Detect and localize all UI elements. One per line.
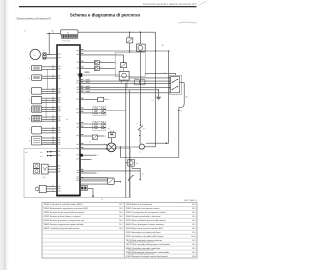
svg-text:16-3: 16-3 <box>192 208 196 210</box>
actuator M2 <box>41 164 48 174</box>
wire pin stub 159 <box>80 158 91 160</box>
sensor B7 body <box>32 126 42 134</box>
svg-text:00: 00 <box>52 101 54 103</box>
svg-text:00: 00 <box>52 120 54 122</box>
ECU bottom thick border <box>56 195 80 197</box>
svg-text:16-5: 16-5 <box>192 216 196 218</box>
wire S3 to H1 <box>139 130 141 144</box>
svg-text:a1: a1 <box>24 31 26 33</box>
diode D1 <box>95 60 100 64</box>
svg-text:00: 00 <box>52 108 54 110</box>
svg-text:c2: c2 <box>120 70 122 72</box>
node 30 <box>168 50 169 51</box>
left page-edge scan shadow <box>0 0 9 270</box>
connector B9 <box>108 132 115 137</box>
connector G1 pins <box>42 53 46 60</box>
svg-text:00: 00 <box>52 127 54 129</box>
svg-text:k1: k1 <box>138 42 140 44</box>
wire to F3 <box>80 135 92 137</box>
wire E1 to S1 <box>145 72 175 74</box>
motor G1 <box>30 49 40 59</box>
wire F1 drop <box>129 32 131 38</box>
wire to D2 <box>80 67 95 69</box>
sensor B1 body <box>32 65 42 70</box>
node SB <box>166 142 168 144</box>
svg-text:16-3: 16-3 <box>119 208 123 210</box>
connector X1 pin comb <box>61 35 63 38</box>
wire blob to K2 <box>82 74 119 76</box>
svg-text:70000 Batteria di avviamento: 70000 Batteria di avviamento <box>126 203 153 206</box>
svg-text:Schema e diagramma di percorso: Schema e diagramma di percorso <box>70 12 141 17</box>
module B3 <box>108 178 115 184</box>
sensor B6 body <box>32 116 42 122</box>
wire D2 out <box>99 67 115 69</box>
pump M3 <box>39 185 46 192</box>
svg-text:00: 00 <box>102 199 104 201</box>
wire V-right <box>128 90 130 198</box>
svg-text:2: 2 <box>29 77 30 79</box>
K2 pin drops <box>120 80 122 83</box>
svg-text:16-10: 16-10 <box>191 236 196 238</box>
wires B3 to U1 <box>42 88 57 90</box>
svg-text:16-4: 16-4 <box>119 212 123 214</box>
wire bus 30 <box>80 50 169 52</box>
wire SB right <box>180 82 185 84</box>
svg-text:c5: c5 <box>137 123 139 125</box>
wire long mid <box>80 170 140 172</box>
relay K2 <box>119 71 129 80</box>
switch S3 <box>138 126 143 131</box>
svg-text:00: 00 <box>52 142 54 144</box>
wire to R1 <box>80 99 98 101</box>
page background <box>0 0 207 270</box>
wire W1 battery feed <box>78 31 156 33</box>
svg-text:b6: b6 <box>136 163 138 165</box>
svg-text:a01: a01 <box>40 156 43 158</box>
svg-text:m1: m1 <box>151 100 153 102</box>
svg-text:30: 30 <box>162 45 164 47</box>
svg-text:h1: h1 <box>139 152 141 154</box>
svg-text:c2: c2 <box>141 78 143 80</box>
wires M3 to U1 <box>46 186 57 188</box>
wire to D1 <box>80 62 95 64</box>
svg-text:00: 00 <box>52 137 54 139</box>
wire bus b5 <box>80 92 170 94</box>
svg-text:00: 00 <box>52 106 54 108</box>
svg-text:70400 Scatola portafusibili e: 70400 Scatola portafusibili e teleruttor… <box>126 215 161 218</box>
wire bus b4 <box>80 89 159 91</box>
svg-text:5: 5 <box>29 109 30 111</box>
svg-text:s1: s1 <box>164 73 166 75</box>
svg-text:61121 Spia candelette di preri: 61121 Spia candelette di preriscaldo mot… <box>126 219 167 222</box>
svg-text:16-6: 16-6 <box>192 220 196 222</box>
svg-text:Schema elettrico del sistema F: Schema elettrico del sistema F1 <box>17 18 52 21</box>
connector X2 <box>80 186 87 191</box>
svg-text:00: 00 <box>52 92 54 94</box>
svg-text:b9: b9 <box>108 128 110 130</box>
wire F3 out <box>97 135 104 137</box>
wire U1 lower right <box>80 183 108 185</box>
wire W1 to K1 <box>139 32 141 44</box>
buzzer H1 <box>139 144 144 149</box>
svg-text:16-2: 16-2 <box>192 240 196 242</box>
op-amp U1 ECU main box <box>57 45 80 196</box>
svg-text:00: 00 <box>52 99 54 101</box>
wire W1 to H1 <box>144 146 155 148</box>
svg-text:00: 00 <box>52 77 54 79</box>
switch S1a <box>172 79 177 82</box>
svg-text:5802 74604 02: 5802 74604 02 <box>184 200 198 202</box>
svg-text:52510 Interruttore sul pedale: 52510 Interruttore sul pedale del freno <box>126 231 162 234</box>
header rule <box>19 6 197 8</box>
svg-text:00: 00 <box>105 136 107 138</box>
svg-text:17: 17 <box>142 173 144 175</box>
zone boundary Z1 <box>24 148 130 197</box>
wire V-left <box>125 83 127 197</box>
fuse F1 <box>127 38 133 43</box>
svg-text:c1: c1 <box>135 78 137 80</box>
wire SB bottom <box>146 142 169 144</box>
bus gauge labels <box>86 79 90 80</box>
svg-text:16-9: 16-9 <box>192 232 196 234</box>
switch box S1 outer <box>169 75 181 94</box>
wires B1 to U1 <box>42 66 57 68</box>
svg-text:16-7: 16-7 <box>192 224 196 226</box>
ground GND1 <box>156 96 161 98</box>
svg-text:16-6: 16-6 <box>119 220 123 222</box>
svg-text:25B00 Elettrovalvola regolazio: 25B00 Elettrovalvola regolazione pressio… <box>44 207 89 210</box>
node W1-b30 <box>155 50 156 51</box>
pencil smudge <box>179 22 197 23</box>
svg-text:00: 00 <box>52 139 54 141</box>
svg-text:17: 17 <box>143 128 145 130</box>
wire to F2 <box>80 54 124 56</box>
svg-text:53000 Commutatore di avviament: 53000 Commutatore di avviamento a chiave <box>126 211 167 214</box>
diode D2 <box>95 66 100 70</box>
valve V2 <box>34 169 40 174</box>
legend table grid <box>42 202 197 258</box>
svg-text:78C10 Rele principale sistema: 78C10 Rele principale sistema iniezione <box>126 239 163 242</box>
svg-text:47042 Sensore di giri motore (: 47042 Sensore di giri motore (albero mot… <box>44 211 85 214</box>
svg-text:1 2 3 4 5 6 7: 1 2 3 4 5 6 7 <box>62 41 71 43</box>
U1 power pin blob <box>79 73 83 77</box>
svg-text:00: 00 <box>52 132 54 134</box>
wire B3 out <box>114 181 120 183</box>
svg-text:16-5: 16-5 <box>192 252 196 254</box>
wires M2 to U1 <box>48 165 57 167</box>
wires B6 to U1 <box>42 116 57 118</box>
svg-text:16-3: 16-3 <box>192 244 196 246</box>
switch S4 <box>128 175 133 180</box>
svg-text:6: 6 <box>29 118 30 120</box>
svg-text:85150 Sensore pressione e temp: 85150 Sensore pressione e temperatura ar… <box>44 219 85 222</box>
wire G1 pin2 <box>47 57 57 59</box>
enclosure E1 <box>115 53 145 77</box>
svg-text:61120 Spia avaria sistema inie: 61120 Spia avaria sistema iniezione EDC <box>126 227 164 230</box>
svg-text:00: 00 <box>52 185 54 187</box>
valve V1 <box>34 163 40 168</box>
wire arrow A1 <box>49 151 58 153</box>
wire drop to G1 <box>48 33 50 54</box>
wires B4 to U1 <box>42 97 57 99</box>
svg-text:00: 00 <box>52 68 54 70</box>
wire L1 right <box>116 146 139 148</box>
wires CN1 <box>80 108 106 110</box>
sensor B8 body <box>32 136 42 145</box>
wire short mid <box>80 172 96 174</box>
svg-text:16-2: 16-2 <box>192 204 196 206</box>
node F2 <box>123 62 124 63</box>
U1 power pin blob 2 <box>80 154 83 157</box>
sensor B4 body <box>32 97 42 104</box>
svg-text:a00: a00 <box>40 152 43 154</box>
svg-text:78000 Centralina di controllo: 78000 Centralina di controllo motore (ED… <box>44 203 84 206</box>
svg-text:1: 1 <box>29 68 30 70</box>
tick on drop wire <box>177 110 180 112</box>
svg-text:78B05 Sensore temperatura liqu: 78B05 Sensore temperatura liquido raffre… <box>44 223 85 226</box>
U1 right outside pin labels <box>81 49 84 50</box>
U1 left pin numbers <box>58 54 60 55</box>
svg-text:16-8: 16-8 <box>119 228 123 230</box>
wires B2 to U1 <box>42 75 57 77</box>
connector C1 <box>134 80 139 85</box>
wire bottom right <box>121 157 179 159</box>
wire arrow A2 <box>49 155 58 157</box>
connector CN1 <box>93 107 106 116</box>
SB pin dots <box>169 77 170 78</box>
sensor B2 body <box>32 75 42 81</box>
lamp L1 <box>107 143 116 152</box>
svg-text:4: 4 <box>43 50 44 52</box>
svg-text:00: 00 <box>52 143 54 145</box>
svg-text:00: 00 <box>52 118 54 120</box>
svg-text:16-5: 16-5 <box>119 216 123 218</box>
wire to alternator <box>47 32 61 34</box>
node J1 <box>49 33 50 34</box>
wires B8 to U1 <box>42 137 57 139</box>
svg-text:47032 Sensore di fase (albero: 47032 Sensore di fase (albero a camme) <box>44 215 81 218</box>
svg-text:30: 30 <box>52 31 54 33</box>
wire bus b2 <box>80 82 171 84</box>
svg-text:7: 7 <box>29 130 30 132</box>
U1 right pin numbers <box>77 50 79 51</box>
svg-text:00: 00 <box>97 173 99 175</box>
wires CN2 <box>80 123 106 125</box>
relay RL2 <box>128 160 135 167</box>
wire stack vertical <box>47 69 49 89</box>
wire X2 drop <box>88 187 93 189</box>
wire bus b1 <box>80 80 171 82</box>
svg-text:00: 00 <box>52 97 54 99</box>
page corner curl <box>199 1 207 5</box>
svg-text:16-2: 16-2 <box>119 204 123 206</box>
svg-text:00: 00 <box>52 75 54 77</box>
svg-text:4: 4 <box>29 100 30 102</box>
svg-text:00: 00 <box>52 90 54 92</box>
svg-text:8: 8 <box>29 140 30 142</box>
wire bus b0 <box>129 77 170 79</box>
wire D1 out <box>99 62 115 64</box>
sensor B5 body <box>32 106 42 112</box>
svg-text:00: 00 <box>52 110 54 112</box>
svg-text:16-4: 16-4 <box>192 248 196 250</box>
connector X1 body <box>61 30 79 35</box>
switch S1b <box>172 86 177 89</box>
resistor R1 <box>98 97 104 101</box>
svg-text:16-4: 16-4 <box>192 212 196 214</box>
wire L1 b <box>80 148 107 150</box>
relay K1 <box>137 44 146 52</box>
wire RL2 out <box>131 166 133 168</box>
wire G1 pin1 <box>47 54 57 56</box>
svg-text:00: 00 <box>52 88 54 90</box>
wires B5 to U1 <box>42 106 57 108</box>
svg-text:25800 Teleruttore avviamento m: 25800 Teleruttore avviamento motore <box>126 207 161 210</box>
wire to ground <box>158 90 160 97</box>
svg-text:00: 00 <box>52 65 54 67</box>
wire drop to SB <box>168 51 170 143</box>
connector CN2 <box>93 122 106 131</box>
wire L1 a <box>80 144 107 146</box>
connector C2 <box>140 80 145 85</box>
svg-text:86000 Presa di diagnosi sistem: 86000 Presa di diagnosi sistema iniezion… <box>126 223 165 226</box>
svg-text:0: 0 <box>92 159 93 161</box>
svg-text:00: 00 <box>52 116 54 118</box>
wire blob2 <box>83 154 96 156</box>
svg-text:3: 3 <box>29 91 30 93</box>
svg-text:G: G <box>34 55 36 57</box>
svg-text:52511 Interruttore sul pedale: 52511 Interruttore sul pedale della friz… <box>126 235 165 238</box>
node F1 top <box>129 32 130 33</box>
sensor B3 body <box>32 88 42 95</box>
svg-text:16-7: 16-7 <box>119 224 123 226</box>
wire bus b3 <box>80 87 171 89</box>
wire B9 to L1 <box>111 138 113 143</box>
svg-text:X1: X1 <box>67 32 69 34</box>
fuse F2 <box>120 63 126 68</box>
svg-text:44035 Candelette di preriscald: 44035 Candelette di preriscaldo motore <box>44 227 81 230</box>
wire stack vertical 2 <box>45 98 47 119</box>
svg-text:a3: a3 <box>89 142 91 144</box>
wires B3 to U1 <box>80 176 108 178</box>
svg-text:Informazioni generali e diagno: Informazioni generali e diagnosi del vei… <box>143 3 197 6</box>
svg-text:m0: m0 <box>25 152 27 154</box>
wire K1 drop <box>139 52 141 126</box>
wire F2 to K2 <box>123 68 125 72</box>
svg-text:44040 Centralina comando cande: 44040 Centralina comando candelette <box>126 247 161 250</box>
svg-text:b02: b02 <box>43 177 46 179</box>
wires B7 to U1 <box>42 127 57 129</box>
svg-text:00: 00 <box>97 155 99 157</box>
svg-text:16-8: 16-8 <box>192 228 196 230</box>
svg-text:f1: f1 <box>128 36 129 38</box>
svg-text:16-6: 16-6 <box>192 256 196 258</box>
svg-text:00: 00 <box>52 129 54 131</box>
svg-text:00: 00 <box>52 190 54 192</box>
svg-text:30: 30 <box>186 97 188 99</box>
switch box S1 <box>171 77 180 93</box>
fuse F3 <box>92 135 97 139</box>
